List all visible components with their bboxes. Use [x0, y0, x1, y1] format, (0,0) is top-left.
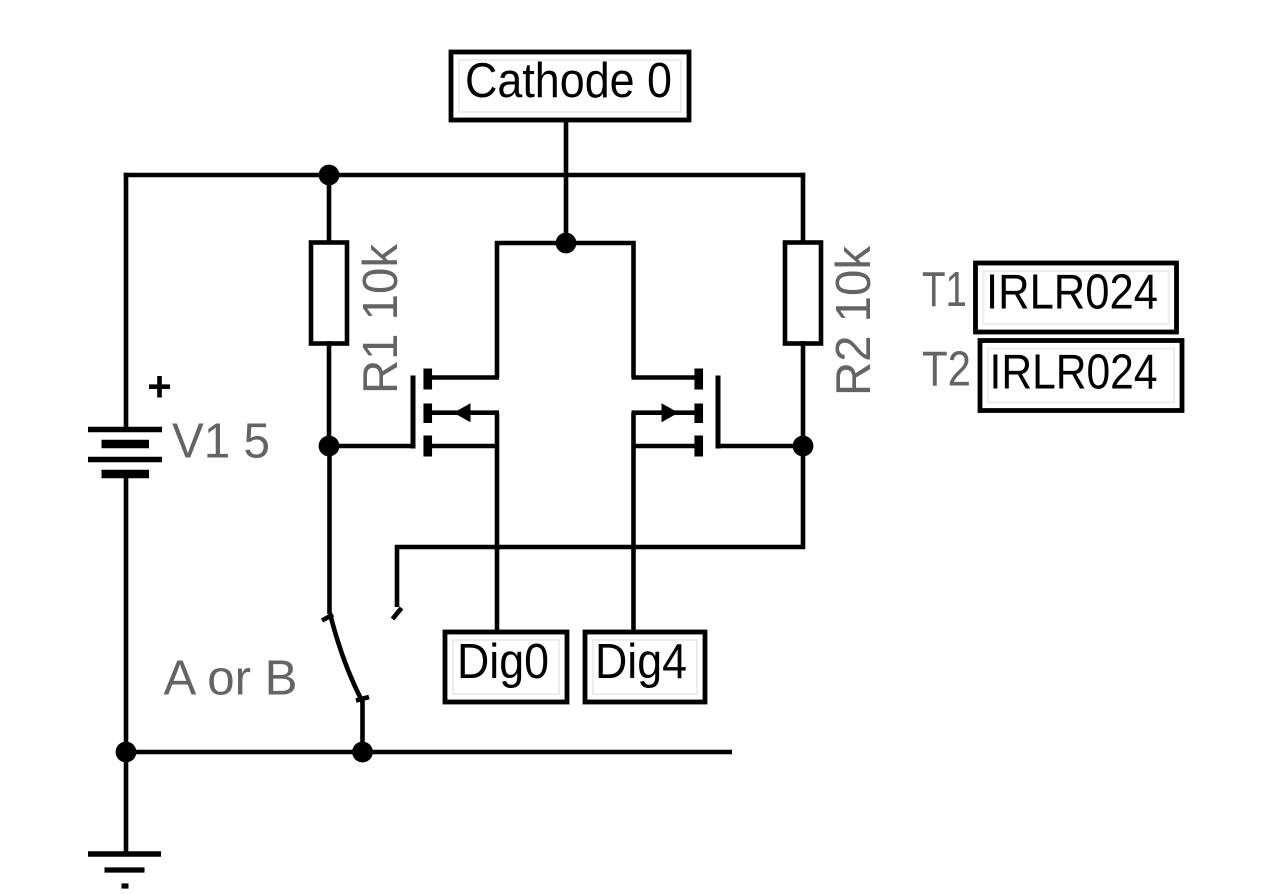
- switch contact A tick: [322, 615, 333, 621]
- wire top horizontal rail: [124, 173, 806, 178]
- svg-text:IRLR024: IRLR024: [990, 346, 1158, 400]
- svg-text:IRLR024: IRLR024: [986, 266, 1158, 320]
- wire bottom ground rail: [126, 750, 732, 755]
- wire cathode lead: [564, 120, 569, 243]
- node junction cathode / yoke: [556, 233, 577, 254]
- wire switch pole: [360, 700, 365, 753]
- svg-text:Cathode 0: Cathode 0: [465, 54, 672, 108]
- transistor Q1 (T1 IRLR024): [413, 369, 499, 457]
- wire gate T2: [718, 444, 803, 449]
- switch contact B tick: [393, 608, 402, 619]
- ground: [88, 854, 161, 886]
- svg-text:R1 10k: R1 10k: [354, 244, 408, 394]
- wire drain yoke: [497, 243, 634, 378]
- node junction R1 / gate T1: [319, 436, 340, 457]
- svg-text:Dig4: Dig4: [595, 635, 687, 689]
- part box T2 IRLR024: [980, 341, 1182, 411]
- svg-text:T2: T2: [922, 343, 971, 397]
- node junction battery/ground rail: [116, 742, 137, 763]
- wire R1 top: [327, 175, 332, 247]
- battery V1: [88, 430, 162, 475]
- wire battery top: [124, 173, 129, 431]
- wire gate T1: [329, 444, 413, 449]
- wire R1 bottom: [327, 341, 332, 446]
- wire source T1 to Dig0: [495, 446, 500, 634]
- net label box Dig4: [585, 632, 705, 702]
- wire battery bottom to ground: [124, 474, 129, 857]
- battery plus sign: [149, 376, 170, 398]
- resistor R2: [785, 243, 821, 344]
- node junction switch / ground rail: [352, 742, 373, 763]
- resistor R1: [311, 243, 347, 344]
- svg-text:V1 5: V1 5: [172, 415, 270, 469]
- svg-text:R2 10k: R2 10k: [827, 246, 881, 396]
- wire switch contact A: [327, 446, 332, 614]
- net label box Cathode 0: [451, 52, 689, 120]
- wire source T2 to Dig4: [631, 446, 636, 634]
- node junction R1 / top rail: [319, 165, 340, 186]
- node junction R2 / gate T2: [793, 436, 814, 457]
- svg-text:A or B: A or B: [164, 652, 298, 706]
- switch pole tick: [356, 697, 369, 701]
- wire R2 bottom: [801, 341, 806, 446]
- part box T1 IRLR024: [976, 263, 1177, 332]
- svg-text:T1: T1: [922, 263, 967, 317]
- transistor Q2 (T2 IRLR024): [632, 369, 719, 457]
- svg-text:Dig0: Dig0: [457, 635, 549, 689]
- switch blade A or B: [331, 618, 363, 703]
- net label box Dig0: [445, 632, 567, 702]
- wire gate net to switch contact B: [397, 446, 803, 607]
- wire R2 top: [801, 173, 806, 247]
